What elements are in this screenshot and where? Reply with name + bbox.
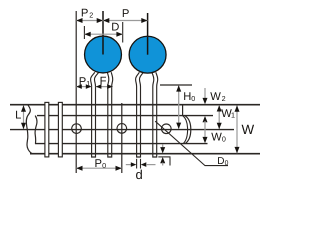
dimension l lower stem bbox=[162, 163, 164, 166]
dimension P left arrow bbox=[103, 18, 109, 23]
dimension D right extension line bbox=[122, 22, 124, 43]
dimension l upper arrow bbox=[160, 147, 165, 153]
tape top edge line W-top bbox=[10, 104, 260, 106]
svg-text:F: F bbox=[100, 75, 107, 87]
dimension d left arrow bbox=[131, 162, 137, 167]
capacitor C1 right lead bbox=[108, 87, 112, 158]
svg-text:0: 0 bbox=[102, 161, 106, 170]
capacitor C1 right lead crimp line 1 bbox=[107, 72, 108, 86]
svg-text:D: D bbox=[217, 156, 224, 167]
capacitor C2 right lead bbox=[153, 87, 157, 158]
dimension d right arrow bbox=[141, 162, 147, 167]
dimension l extension line bbox=[158, 156, 170, 158]
capacitor C2 left lead bbox=[137, 87, 141, 158]
dimension H0 up arrow bbox=[176, 85, 181, 91]
dimension W down arrow bbox=[235, 147, 240, 153]
svg-text:1: 1 bbox=[86, 79, 90, 88]
dimension P line bbox=[103, 20, 148, 22]
svg-text:W: W bbox=[210, 91, 221, 103]
cut lead stub 1 bbox=[45, 102, 49, 156]
dimension F right arrow bbox=[107, 84, 113, 89]
sprocket hole 3 bbox=[162, 124, 172, 134]
svg-text:P: P bbox=[95, 158, 102, 170]
dimension W2 upper stem bbox=[204, 88, 206, 99]
svg-text:0: 0 bbox=[222, 135, 226, 144]
dimension D right arrow bbox=[116, 32, 122, 37]
svg-text:1: 1 bbox=[231, 111, 235, 120]
hold-down tape curled end outer bbox=[185, 116, 191, 144]
dimension W stem bbox=[236, 105, 238, 153]
dimension P1 line bbox=[76, 86, 91, 88]
capacitor C2 left lead crimp line 1 bbox=[136, 72, 140, 86]
svg-text:D: D bbox=[111, 22, 119, 34]
dimension W2 lower arrow bbox=[203, 116, 208, 122]
dimension H0 down arrow bbox=[176, 123, 181, 129]
dimension d right line bbox=[146, 164, 156, 166]
svg-text:2: 2 bbox=[89, 10, 93, 19]
dimension P1 left arrow bbox=[76, 84, 82, 89]
hold-down tape torn edge bbox=[35, 116, 37, 144]
dimension D left extension line bbox=[83, 26, 85, 39]
sprocket hole 2 bbox=[117, 124, 127, 134]
svg-text:l: l bbox=[169, 157, 172, 169]
carrier tape torn edge bbox=[26, 105, 32, 154]
dimension P2 left arrow bbox=[76, 18, 82, 23]
sprocket hole 1 bbox=[72, 124, 82, 134]
capacitor C1 left lead bbox=[92, 87, 96, 158]
dimension H0 stem bbox=[178, 86, 180, 129]
dimension W1 up arrow bbox=[217, 105, 222, 111]
svg-text:P: P bbox=[122, 8, 129, 20]
dimension d left extension line bbox=[136, 159, 138, 169]
hold-down tape bottom edge bbox=[35, 143, 208, 145]
capacitor C1 disc centre mark bbox=[102, 37, 104, 55]
svg-text:L: L bbox=[15, 110, 21, 122]
capacitor C1 right lead crimp line 2 bbox=[111, 72, 112, 86]
capacitor C2 disc body bbox=[129, 36, 166, 73]
dimension W0 down arrow bbox=[203, 137, 208, 143]
dimension P0 right arrow bbox=[116, 166, 122, 171]
dimension P0 line bbox=[76, 167, 122, 169]
capacitor C1 centre line bbox=[102, 11, 104, 55]
dimension W1 down arrow bbox=[217, 123, 222, 129]
dimension P right arrow bbox=[141, 18, 147, 23]
dimension L down arrow bbox=[21, 123, 26, 129]
dimension D0 leader line bbox=[155, 121, 228, 165]
dimension d right extension line bbox=[140, 159, 142, 169]
capacitor C2 right lead crimp line 1 bbox=[152, 72, 154, 86]
capacitor C2 disc centre mark bbox=[147, 37, 149, 55]
sprocket hole centre line bbox=[10, 129, 234, 131]
dimension l lower arrow bbox=[160, 157, 165, 163]
dimension H0 reference line bbox=[160, 84, 192, 86]
dimension l upper stem bbox=[162, 145, 164, 149]
dimension L stem bbox=[23, 105, 25, 129]
capacitor C1 left lead crimp line 2 bbox=[95, 72, 99, 86]
dimension P1 right arrow bbox=[86, 84, 92, 89]
hold-down tape top edge bbox=[37, 115, 213, 117]
dimension F line bbox=[96, 86, 113, 88]
dimension W up arrow bbox=[235, 105, 240, 111]
capacitor C2 centre line bbox=[147, 13, 149, 55]
hold-down tape end cut mark bbox=[182, 105, 184, 116]
dimension P2 right arrow bbox=[97, 18, 103, 23]
svg-text:d: d bbox=[136, 167, 143, 182]
capacitor C1 disc body bbox=[85, 36, 122, 73]
dimension F left arrow bbox=[96, 84, 102, 89]
svg-text:H: H bbox=[183, 91, 191, 103]
tape bottom edge line W-bottom bbox=[30, 153, 260, 155]
capacitor C2 right lead crimp line 2 bbox=[156, 72, 158, 86]
svg-text:0: 0 bbox=[225, 160, 229, 167]
dimension L up arrow bbox=[21, 105, 26, 111]
svg-text:W: W bbox=[211, 132, 222, 144]
svg-text:0: 0 bbox=[191, 94, 195, 103]
cut lead stub 2 bbox=[58, 102, 62, 156]
hold-down tape curled end inner bbox=[183, 116, 188, 144]
svg-text:W: W bbox=[242, 122, 255, 137]
svg-text:2: 2 bbox=[222, 94, 226, 103]
capacitor C2 left lead crimp line 2 bbox=[140, 72, 144, 86]
svg-text:P: P bbox=[81, 7, 88, 19]
capacitor C1 left lead crimp line 1 bbox=[91, 72, 95, 86]
dimension D line bbox=[84, 33, 122, 35]
svg-text:P: P bbox=[79, 76, 86, 88]
dimension W2 upper arrow bbox=[203, 98, 208, 104]
dimension P2 line bbox=[76, 20, 103, 22]
dimension D left arrow bbox=[84, 32, 90, 37]
dimension W1 stem bbox=[218, 105, 220, 129]
dimension W0 stem bbox=[204, 121, 206, 138]
sprocket hole 2 centre line bbox=[121, 103, 123, 173]
dimension d left line bbox=[126, 164, 131, 166]
sprocket hole 1 centre line bbox=[75, 11, 77, 173]
dimension P0 left arrow bbox=[76, 166, 82, 171]
